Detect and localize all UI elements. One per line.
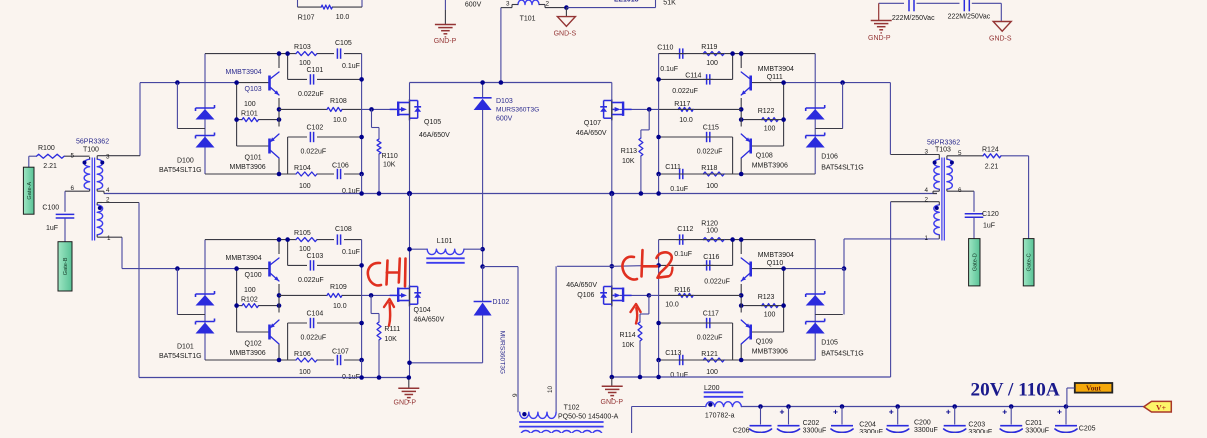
svg-text:0.022uF: 0.022uF (672, 88, 698, 95)
svg-text:R119: R119 (701, 44, 717, 51)
svg-text:C102: C102 (307, 125, 324, 132)
svg-text:Q101: Q101 (245, 155, 262, 162)
svg-text:D103: D103 (496, 98, 513, 105)
svg-text:D105: D105 (821, 340, 838, 347)
svg-text:+: + (889, 407, 894, 417)
svg-text:Gate-D: Gate-D (972, 253, 978, 271)
svg-text:10.0: 10.0 (679, 117, 693, 124)
svg-text:C112: C112 (677, 226, 693, 233)
svg-text:C107: C107 (332, 348, 349, 355)
svg-text:10.0: 10.0 (333, 303, 347, 310)
svg-text:100: 100 (706, 60, 718, 67)
svg-text:3300uF: 3300uF (803, 428, 827, 433)
svg-text:4: 4 (106, 187, 110, 194)
svg-text:0.022uF: 0.022uF (298, 91, 324, 98)
svg-text:GND-P: GND-P (394, 400, 417, 407)
svg-text:4: 4 (924, 187, 928, 194)
svg-text:C104: C104 (307, 311, 324, 318)
svg-text:BAT54SLT1G: BAT54SLT1G (159, 353, 202, 360)
svg-text:T101: T101 (520, 15, 536, 22)
svg-text:C108: C108 (335, 226, 352, 233)
svg-text:MURS360T3G: MURS360T3G (496, 107, 539, 114)
svg-text:C110: C110 (657, 45, 673, 52)
svg-text:56PR3362: 56PR3362 (927, 140, 960, 147)
svg-text:3: 3 (506, 1, 510, 8)
svg-text:100: 100 (706, 183, 718, 190)
svg-text:MMBT3904: MMBT3904 (226, 69, 262, 76)
svg-text:1uF: 1uF (983, 223, 995, 230)
svg-text:C201: C201 (1025, 420, 1042, 427)
svg-text:C206: C206 (733, 428, 750, 434)
svg-text:Gate-C: Gate-C (1027, 253, 1033, 271)
svg-text:R104: R104 (294, 165, 311, 172)
svg-text:2: 2 (924, 197, 928, 204)
svg-text:GND-P: GND-P (434, 38, 457, 45)
svg-text:C103: C103 (307, 253, 324, 260)
svg-text:R117: R117 (674, 101, 690, 108)
svg-text:C111: C111 (665, 164, 681, 171)
svg-text:2.21: 2.21 (985, 164, 999, 171)
svg-text:10.0: 10.0 (333, 117, 347, 124)
svg-text:Gate-A: Gate-A (27, 182, 33, 200)
svg-text:51K: 51K (663, 0, 676, 7)
svg-text:Q108: Q108 (756, 153, 773, 160)
svg-text:100: 100 (244, 287, 256, 294)
svg-text:T100: T100 (83, 147, 99, 154)
svg-text:EL1018: EL1018 (614, 0, 639, 4)
svg-text:Q110: Q110 (767, 260, 784, 267)
svg-text:R108: R108 (330, 98, 347, 105)
svg-text:L101: L101 (437, 238, 453, 245)
svg-text:46A/650V: 46A/650V (414, 317, 445, 324)
svg-text:MMBT3904: MMBT3904 (226, 255, 262, 262)
svg-text:MMBT3906: MMBT3906 (230, 350, 266, 357)
svg-text:3300uF: 3300uF (1025, 428, 1049, 433)
svg-text:C106: C106 (332, 162, 349, 169)
svg-text:0.022uF: 0.022uF (301, 335, 327, 342)
svg-text:Gate-B: Gate-B (63, 257, 69, 275)
svg-text:C200: C200 (914, 419, 931, 426)
svg-text:MURS360T3G: MURS360T3G (499, 331, 506, 374)
svg-text:R109: R109 (330, 284, 347, 291)
svg-text:20V / 110A: 20V / 110A (971, 380, 1060, 401)
svg-text:D106: D106 (821, 154, 838, 161)
svg-text:MMBT3904: MMBT3904 (758, 66, 794, 73)
svg-text:600V: 600V (496, 116, 513, 123)
svg-text:5: 5 (958, 150, 962, 157)
svg-text:Q109: Q109 (756, 339, 773, 346)
svg-text:10.0: 10.0 (665, 301, 679, 308)
svg-text:R105: R105 (294, 230, 311, 237)
svg-text:0.1uF: 0.1uF (342, 249, 360, 256)
svg-text:C116: C116 (703, 254, 719, 261)
svg-text:C204: C204 (859, 422, 876, 429)
svg-text:C117: C117 (703, 311, 719, 318)
svg-text:R122: R122 (758, 108, 775, 115)
svg-text:PQ50-50 145400-A: PQ50-50 145400-A (558, 413, 619, 420)
svg-text:V+: V+ (1156, 403, 1167, 412)
svg-text:BAT54SLT1G: BAT54SLT1G (159, 167, 202, 174)
svg-text:Vout: Vout (1086, 384, 1101, 393)
svg-text:9: 9 (512, 393, 519, 397)
svg-text:R111: R111 (384, 326, 400, 333)
svg-text:R124: R124 (982, 147, 999, 154)
svg-text:D102: D102 (493, 299, 510, 306)
svg-text:C113: C113 (665, 350, 681, 357)
svg-text:C101: C101 (307, 67, 324, 74)
svg-text:Q106: Q106 (577, 292, 594, 299)
svg-text:0.1uF: 0.1uF (670, 186, 688, 193)
svg-text:222M/250Vac: 222M/250Vac (948, 14, 991, 21)
svg-text:Q100: Q100 (245, 272, 262, 279)
svg-text:Q102: Q102 (245, 341, 262, 348)
svg-text:D101: D101 (177, 344, 194, 351)
svg-text:+: + (1057, 407, 1062, 417)
svg-text:R101: R101 (241, 111, 258, 118)
svg-text:R102: R102 (241, 297, 258, 304)
svg-text:100: 100 (764, 312, 776, 319)
svg-text:R118: R118 (701, 165, 717, 172)
svg-text:Q105: Q105 (424, 119, 441, 126)
svg-text:100: 100 (299, 183, 311, 190)
svg-text:R110: R110 (382, 153, 398, 160)
svg-text:C203: C203 (968, 422, 985, 429)
svg-text:C105: C105 (335, 40, 352, 47)
svg-text:R114: R114 (619, 332, 635, 339)
svg-text:0.1uF: 0.1uF (660, 66, 678, 73)
svg-text:46A/650V: 46A/650V (566, 282, 597, 289)
svg-text:600V: 600V (465, 1, 482, 8)
svg-text:100: 100 (764, 126, 776, 133)
svg-text:Q104: Q104 (414, 307, 431, 314)
svg-text:10K: 10K (622, 342, 635, 349)
svg-text:MMBT3904: MMBT3904 (758, 252, 794, 259)
svg-text:R121: R121 (701, 351, 718, 358)
svg-text:56PR3362: 56PR3362 (76, 139, 109, 146)
svg-text:0.022uF: 0.022uF (301, 149, 327, 156)
svg-text:3: 3 (924, 149, 928, 156)
svg-text:+: + (780, 407, 785, 417)
svg-text:R106: R106 (294, 351, 311, 358)
svg-text:R103: R103 (294, 44, 311, 51)
svg-text:C100: C100 (42, 204, 59, 211)
svg-text:100: 100 (706, 228, 718, 235)
svg-text:170782-a: 170782-a (705, 413, 735, 420)
svg-text:100: 100 (299, 369, 311, 376)
svg-text:10.0: 10.0 (336, 14, 350, 21)
svg-text:R120: R120 (701, 221, 718, 228)
svg-text:1: 1 (107, 235, 111, 242)
svg-text:+: + (1002, 407, 1007, 417)
svg-text:T103: T103 (935, 147, 951, 154)
svg-text:GND-S: GND-S (989, 35, 1012, 42)
svg-text:L200: L200 (704, 385, 720, 392)
svg-text:10K: 10K (383, 162, 396, 169)
svg-text:0.1uF: 0.1uF (674, 251, 692, 258)
svg-text:MMBT3906: MMBT3906 (230, 164, 266, 171)
svg-text:10: 10 (547, 385, 554, 393)
svg-text:R116: R116 (674, 287, 690, 294)
svg-text:C205: C205 (1079, 426, 1096, 433)
svg-text:+: + (946, 407, 951, 417)
svg-text:R107: R107 (298, 15, 315, 22)
svg-text:MMBT3906: MMBT3906 (752, 163, 788, 170)
svg-text:0.022uF: 0.022uF (704, 278, 730, 285)
svg-text:3300uF: 3300uF (914, 427, 938, 433)
svg-text:R123: R123 (758, 294, 775, 301)
svg-text:2.21: 2.21 (43, 163, 57, 170)
svg-text:100: 100 (244, 101, 256, 108)
svg-text:2: 2 (106, 197, 110, 204)
svg-text:0.022uF: 0.022uF (697, 335, 723, 342)
svg-text:46A/650V: 46A/650V (419, 132, 450, 139)
svg-text:C120: C120 (982, 211, 999, 218)
svg-text:3300uF: 3300uF (859, 429, 883, 433)
svg-text:+: + (833, 407, 838, 417)
svg-text:0.022uF: 0.022uF (298, 277, 324, 284)
svg-text:5: 5 (70, 153, 74, 160)
svg-text:10K: 10K (622, 158, 635, 165)
svg-text:Q107: Q107 (584, 120, 601, 127)
svg-text:0.022uF: 0.022uF (697, 149, 723, 156)
svg-text:1uF: 1uF (46, 225, 58, 232)
svg-text:6: 6 (70, 185, 74, 192)
svg-text:GND-P: GND-P (601, 399, 624, 406)
svg-text:46A/650V: 46A/650V (576, 130, 607, 137)
svg-text:Q111: Q111 (767, 74, 783, 81)
svg-text:C115: C115 (703, 125, 719, 132)
svg-text:GND-P: GND-P (868, 35, 891, 42)
svg-text:10K: 10K (384, 336, 397, 343)
svg-text:R100: R100 (38, 145, 55, 152)
svg-text:BAT54SLT1G: BAT54SLT1G (821, 351, 864, 358)
svg-text:1: 1 (924, 235, 928, 242)
svg-text:100: 100 (706, 369, 718, 376)
svg-text:R113: R113 (621, 148, 637, 155)
svg-text:D100: D100 (177, 158, 194, 165)
svg-text:2: 2 (546, 1, 550, 8)
svg-text:C114: C114 (685, 72, 701, 79)
svg-text:3300uF: 3300uF (968, 429, 992, 433)
svg-text:T102: T102 (564, 405, 580, 412)
svg-text:3: 3 (106, 154, 110, 161)
svg-text:222M/250Vac: 222M/250Vac (892, 15, 935, 22)
svg-text:BAT54SLT1G: BAT54SLT1G (821, 165, 864, 172)
svg-text:GND-S: GND-S (554, 31, 577, 38)
svg-text:MMBT3906: MMBT3906 (752, 349, 788, 356)
svg-text:6: 6 (958, 187, 962, 194)
svg-text:0.1uF: 0.1uF (670, 372, 688, 379)
svg-text:0.1uF: 0.1uF (342, 63, 360, 70)
svg-text:Q103: Q103 (245, 86, 262, 93)
svg-text:C202: C202 (803, 420, 820, 427)
